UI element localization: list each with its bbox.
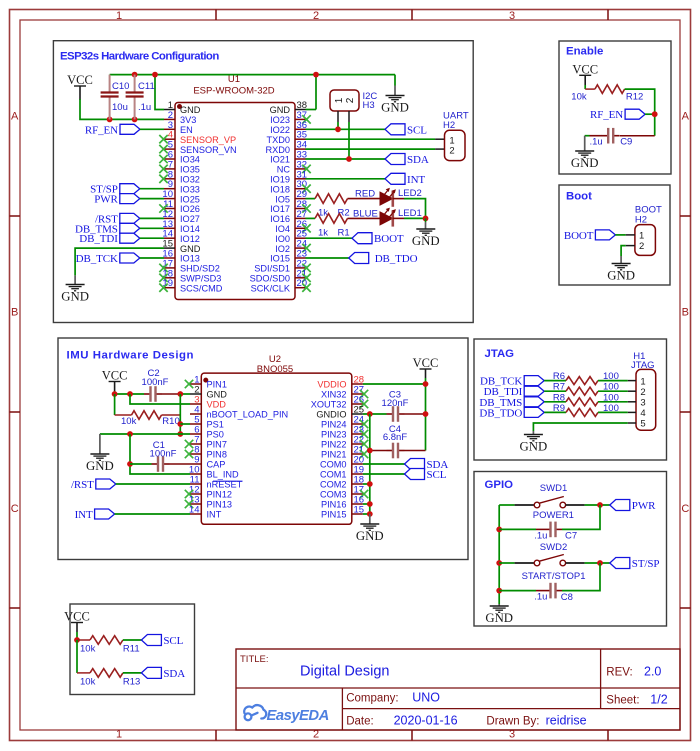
svg-text:C10: C10 bbox=[112, 81, 129, 92]
svg-text:.1u: .1u bbox=[590, 136, 603, 147]
svg-text:GND: GND bbox=[270, 105, 291, 115]
svg-text:Sheet:: Sheet: bbox=[606, 695, 639, 707]
svg-text:C9: C9 bbox=[620, 136, 632, 147]
svg-text:PWR: PWR bbox=[94, 194, 118, 206]
svg-text:Drawn By:: Drawn By: bbox=[486, 716, 539, 728]
svg-text:PIN23: PIN23 bbox=[321, 430, 347, 440]
svg-text:10u: 10u bbox=[112, 102, 128, 113]
svg-text:R1: R1 bbox=[338, 228, 350, 239]
svg-text:INT: INT bbox=[207, 510, 222, 520]
svg-text:DB_TDI: DB_TDI bbox=[79, 233, 118, 245]
svg-text:GND: GND bbox=[607, 269, 635, 283]
svg-text:15: 15 bbox=[354, 505, 365, 516]
svg-text:CAP: CAP bbox=[207, 460, 226, 470]
svg-text:ST/SP: ST/SP bbox=[632, 558, 660, 570]
svg-text:COM3: COM3 bbox=[320, 490, 347, 500]
svg-text:IO5: IO5 bbox=[275, 194, 290, 204]
svg-text:IMU Hardware Design: IMU Hardware Design bbox=[67, 350, 195, 362]
svg-text:IO25: IO25 bbox=[180, 194, 200, 204]
svg-text:Enable: Enable bbox=[566, 46, 603, 58]
svg-text:10k: 10k bbox=[571, 91, 587, 102]
svg-text:2: 2 bbox=[313, 10, 319, 22]
svg-text:PIN24: PIN24 bbox=[321, 420, 347, 430]
svg-text:IO18: IO18 bbox=[270, 184, 290, 194]
svg-text:COM2: COM2 bbox=[320, 480, 347, 490]
svg-text:GND: GND bbox=[520, 440, 548, 454]
svg-text:XOUT32: XOUT32 bbox=[311, 400, 347, 410]
svg-text:SWD2: SWD2 bbox=[540, 542, 567, 553]
svg-text:LED2: LED2 bbox=[398, 188, 422, 199]
svg-text:GND: GND bbox=[412, 234, 440, 248]
svg-text:1/2: 1/2 bbox=[650, 693, 667, 707]
svg-text:GND: GND bbox=[356, 529, 384, 543]
svg-text:2: 2 bbox=[640, 387, 645, 398]
svg-text:PIN8: PIN8 bbox=[207, 450, 227, 460]
svg-text:COM1: COM1 bbox=[320, 470, 347, 480]
svg-text:IO21: IO21 bbox=[270, 155, 290, 165]
svg-text:GND: GND bbox=[381, 101, 409, 115]
svg-text:BL_IND: BL_IND bbox=[207, 470, 240, 480]
svg-text:SWD1: SWD1 bbox=[540, 483, 567, 494]
svg-text:2: 2 bbox=[345, 97, 356, 103]
svg-text:GND: GND bbox=[485, 611, 513, 625]
svg-text:BOOT: BOOT bbox=[564, 230, 594, 242]
svg-text:VCC: VCC bbox=[572, 62, 598, 76]
svg-text:VCC: VCC bbox=[413, 356, 439, 370]
svg-text:C7: C7 bbox=[565, 531, 577, 542]
svg-text:2.0: 2.0 bbox=[644, 665, 661, 679]
svg-text:H2: H2 bbox=[635, 214, 647, 225]
svg-text:SCL: SCL bbox=[407, 124, 427, 136]
svg-text:nBOOT_LOAD_PIN: nBOOT_LOAD_PIN bbox=[207, 410, 289, 420]
svg-text:IO12: IO12 bbox=[180, 234, 200, 244]
svg-text:2: 2 bbox=[449, 146, 454, 157]
svg-text:reidrise: reidrise bbox=[546, 714, 587, 728]
svg-text:PIN21: PIN21 bbox=[321, 450, 347, 460]
svg-text:C11: C11 bbox=[138, 81, 155, 92]
svg-text:SWP/SD3: SWP/SD3 bbox=[180, 274, 221, 284]
svg-text:R11: R11 bbox=[123, 643, 140, 654]
svg-text:TITLE:: TITLE: bbox=[240, 654, 269, 665]
svg-text:IO17: IO17 bbox=[270, 204, 290, 214]
svg-text:10k: 10k bbox=[121, 416, 137, 427]
svg-text:RF_EN: RF_EN bbox=[590, 109, 623, 121]
svg-text:GND: GND bbox=[207, 390, 228, 400]
svg-text:IO19: IO19 bbox=[270, 175, 290, 185]
svg-text:.1u: .1u bbox=[534, 531, 547, 542]
svg-text:2: 2 bbox=[639, 241, 644, 252]
svg-text:RF_EN: RF_EN bbox=[85, 124, 118, 136]
svg-text:R8: R8 bbox=[553, 392, 565, 403]
svg-text:DB_TCK: DB_TCK bbox=[76, 253, 118, 265]
svg-text:BOOT: BOOT bbox=[374, 233, 404, 245]
svg-text:GND: GND bbox=[571, 156, 599, 170]
svg-text:GND: GND bbox=[180, 105, 201, 115]
svg-text:120nF: 120nF bbox=[382, 398, 409, 409]
svg-text:4: 4 bbox=[640, 408, 645, 419]
svg-text:RXD0: RXD0 bbox=[265, 145, 290, 155]
svg-text:IO0: IO0 bbox=[275, 234, 290, 244]
svg-text:SHD/SD2: SHD/SD2 bbox=[180, 264, 220, 274]
svg-text:PIN7: PIN7 bbox=[207, 440, 227, 450]
svg-text:A: A bbox=[682, 111, 690, 123]
svg-text:PS1: PS1 bbox=[207, 420, 224, 430]
svg-text:100nF: 100nF bbox=[142, 377, 169, 388]
svg-text:3V3: 3V3 bbox=[180, 115, 196, 125]
svg-text:1: 1 bbox=[639, 230, 644, 241]
svg-text:R12: R12 bbox=[626, 91, 643, 102]
svg-text:IO4: IO4 bbox=[275, 224, 290, 234]
svg-text:IO32: IO32 bbox=[180, 175, 200, 185]
svg-text:2020-01-16: 2020-01-16 bbox=[394, 714, 458, 728]
svg-text:100: 100 bbox=[603, 371, 619, 382]
svg-text:SCL: SCL bbox=[163, 635, 183, 647]
svg-text:ESP32s Hardware Configuration: ESP32s Hardware Configuration bbox=[60, 51, 219, 63]
svg-text:SCL: SCL bbox=[427, 469, 447, 481]
svg-text:U1: U1 bbox=[228, 74, 240, 85]
svg-text:IO35: IO35 bbox=[180, 165, 200, 175]
svg-text:SENSOR_VN: SENSOR_VN bbox=[180, 145, 237, 155]
svg-text:SDI/SD1: SDI/SD1 bbox=[254, 264, 290, 274]
svg-text:B: B bbox=[682, 307, 689, 319]
svg-text:1: 1 bbox=[334, 97, 345, 103]
svg-text:COM0: COM0 bbox=[320, 460, 347, 470]
svg-text:1: 1 bbox=[640, 376, 645, 387]
svg-text:C: C bbox=[681, 503, 689, 515]
svg-text:ESP-WROOM-32D: ESP-WROOM-32D bbox=[193, 86, 274, 97]
svg-text:DB_TDO: DB_TDO bbox=[479, 407, 522, 419]
svg-text:C8: C8 bbox=[561, 592, 573, 603]
svg-text:5: 5 bbox=[640, 419, 645, 430]
svg-text:VCC: VCC bbox=[64, 610, 90, 624]
svg-text:SCK/CLK: SCK/CLK bbox=[251, 283, 291, 293]
svg-text:INT: INT bbox=[407, 174, 425, 186]
svg-text:TXD0: TXD0 bbox=[267, 135, 291, 145]
svg-text:1: 1 bbox=[116, 10, 122, 22]
svg-text:100nF: 100nF bbox=[150, 449, 177, 460]
svg-text:JTAG: JTAG bbox=[485, 348, 515, 360]
svg-text:GND: GND bbox=[180, 244, 201, 254]
svg-text:IO33: IO33 bbox=[180, 184, 200, 194]
svg-text:LED1: LED1 bbox=[398, 208, 422, 219]
svg-text:Company:: Company: bbox=[346, 693, 398, 705]
svg-text:UNO: UNO bbox=[412, 691, 440, 705]
svg-text:IO26: IO26 bbox=[180, 204, 200, 214]
svg-text:VDD: VDD bbox=[207, 400, 227, 410]
svg-text:GNDIO: GNDIO bbox=[316, 410, 346, 420]
svg-text:IO22: IO22 bbox=[270, 125, 290, 135]
svg-text:Boot: Boot bbox=[566, 191, 592, 203]
svg-text:IO23: IO23 bbox=[270, 115, 290, 125]
svg-text:PIN12: PIN12 bbox=[207, 490, 233, 500]
svg-text:14: 14 bbox=[189, 505, 200, 516]
svg-text:PWR: PWR bbox=[632, 500, 656, 512]
svg-text:6.8nF: 6.8nF bbox=[383, 432, 407, 443]
svg-text:B: B bbox=[11, 307, 18, 319]
svg-text:XIN32: XIN32 bbox=[321, 390, 347, 400]
svg-text:IO14: IO14 bbox=[180, 224, 200, 234]
svg-text:R6: R6 bbox=[553, 371, 565, 382]
svg-text:A: A bbox=[11, 111, 19, 123]
svg-text:IO27: IO27 bbox=[180, 214, 200, 224]
svg-text:REV:: REV: bbox=[606, 667, 632, 679]
svg-text:.1u: .1u bbox=[534, 592, 547, 603]
svg-text:PIN22: PIN22 bbox=[321, 440, 347, 450]
svg-text:10k: 10k bbox=[80, 643, 96, 654]
svg-text:/RST: /RST bbox=[71, 479, 94, 491]
svg-text:C: C bbox=[11, 503, 19, 515]
svg-text:PIN16: PIN16 bbox=[321, 500, 347, 510]
svg-text:SDO/SD0: SDO/SD0 bbox=[250, 274, 290, 284]
svg-text:INT: INT bbox=[75, 509, 93, 521]
svg-text:SDA: SDA bbox=[163, 668, 185, 680]
svg-text:H3: H3 bbox=[363, 100, 375, 111]
svg-text:GND: GND bbox=[86, 459, 114, 473]
svg-text:START/STOP1: START/STOP1 bbox=[522, 571, 586, 582]
svg-text:EN: EN bbox=[180, 125, 193, 135]
svg-text:H2: H2 bbox=[443, 120, 455, 131]
svg-text:100: 100 bbox=[603, 382, 619, 393]
svg-text:VCC: VCC bbox=[67, 73, 93, 87]
svg-text:IO2: IO2 bbox=[275, 244, 290, 254]
svg-text:3: 3 bbox=[509, 10, 515, 22]
svg-text:100: 100 bbox=[603, 392, 619, 403]
svg-text:100: 100 bbox=[603, 403, 619, 414]
svg-text:3: 3 bbox=[640, 398, 645, 409]
svg-text:NC: NC bbox=[277, 165, 291, 175]
svg-text:1: 1 bbox=[116, 729, 122, 741]
svg-text:BLUE: BLUE bbox=[353, 208, 378, 219]
svg-text:IO15: IO15 bbox=[270, 254, 290, 264]
svg-text:PIN15: PIN15 bbox=[321, 510, 347, 520]
svg-text:SCS/CMD: SCS/CMD bbox=[180, 283, 223, 293]
svg-text:PIN13: PIN13 bbox=[207, 500, 233, 510]
svg-text:Date:: Date: bbox=[346, 716, 374, 728]
svg-text:.1u: .1u bbox=[138, 102, 151, 113]
svg-text:R9: R9 bbox=[553, 403, 565, 414]
svg-text:SENSOR_VP: SENSOR_VP bbox=[180, 135, 236, 145]
svg-text:Digital Design: Digital Design bbox=[300, 664, 389, 680]
svg-text:R13: R13 bbox=[123, 676, 140, 687]
svg-text:1k: 1k bbox=[318, 228, 328, 239]
svg-text:VDDIO: VDDIO bbox=[317, 380, 346, 390]
svg-text:RED: RED bbox=[355, 189, 375, 200]
svg-text:GPIO: GPIO bbox=[485, 479, 514, 491]
svg-text:POWER1: POWER1 bbox=[533, 510, 574, 521]
svg-text:SDA: SDA bbox=[407, 154, 429, 166]
svg-text:R7: R7 bbox=[553, 382, 565, 393]
svg-text:EasyEDA: EasyEDA bbox=[267, 708, 329, 724]
svg-text:10k: 10k bbox=[80, 676, 96, 687]
svg-text:IO13: IO13 bbox=[180, 254, 200, 264]
svg-text:GND: GND bbox=[61, 290, 89, 304]
svg-text:R10: R10 bbox=[162, 416, 179, 427]
svg-text:IO34: IO34 bbox=[180, 155, 200, 165]
svg-text:PS0: PS0 bbox=[207, 430, 224, 440]
svg-text:IO16: IO16 bbox=[270, 214, 290, 224]
svg-text:DB_TDO: DB_TDO bbox=[375, 253, 418, 265]
svg-text:VCC: VCC bbox=[102, 369, 128, 383]
svg-text:PIN1: PIN1 bbox=[207, 380, 227, 390]
